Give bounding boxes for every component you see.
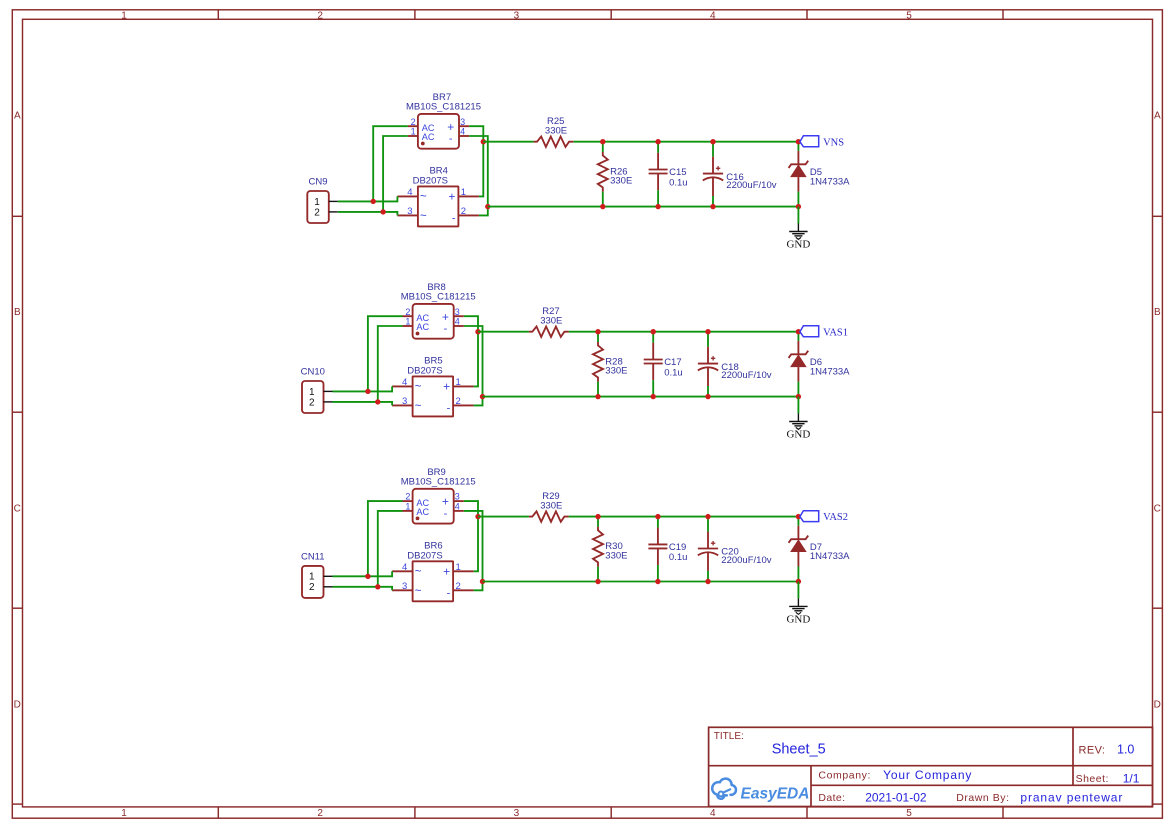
junction C16 bottom (710, 204, 715, 209)
resistor R30 330E (593, 517, 627, 582)
junction CN11.1 (365, 574, 370, 579)
CN10 pin 2 (324, 401, 333, 403)
svg-text:1: 1 (456, 377, 461, 388)
wire C16 bottom (712, 196, 714, 207)
capacitor C17 0.1u (644, 332, 683, 397)
svg-text:4: 4 (455, 317, 460, 327)
row tick right 1 (1153, 215, 1163, 217)
svg-text:3: 3 (514, 11, 520, 22)
wire C15 bottom (657, 190, 659, 206)
column tick bottom 1 (217, 807, 219, 818)
svg-text:2: 2 (405, 492, 410, 502)
wire BR4.2 to - rail (479, 207, 488, 216)
svg-text:5: 5 (906, 808, 912, 819)
BR8 pin 4 (454, 325, 464, 327)
BR8 pin 2 (403, 315, 413, 317)
C15 plates (649, 169, 668, 171)
column tick top 2 (414, 10, 416, 19)
CN9 pin 2 (329, 211, 338, 213)
C16 plus sign (716, 167, 720, 169)
wire CN11.1 to BR6.4 (333, 571, 393, 576)
svg-text:1N4733A: 1N4733A (810, 551, 850, 562)
wire R28 top (597, 332, 599, 342)
bridge rectifier BR8 MB10S_C181215 (401, 282, 476, 339)
svg-text:+: + (442, 310, 449, 324)
svg-text:2200uF/10v: 2200uF/10v (726, 180, 776, 191)
ground symbol GND (786, 598, 810, 625)
wire - rail (488, 206, 799, 208)
BR7 pin 4 (459, 135, 469, 137)
wire C19 top (657, 517, 659, 528)
svg-text:1: 1 (309, 572, 315, 583)
svg-text:DB207S: DB207S (413, 175, 448, 186)
C18 plus sign (711, 357, 715, 359)
title block vertical logo divider (810, 766, 812, 807)
BR7 pin 2 (408, 125, 418, 127)
svg-text:5: 5 (906, 11, 912, 22)
junction D6 bottom (796, 394, 801, 399)
svg-text:1: 1 (405, 317, 410, 327)
wire CN9.2 to BR4.3 (338, 212, 398, 216)
wire D5 top (797, 142, 799, 151)
svg-text:4: 4 (402, 377, 407, 388)
svg-text:1: 1 (405, 502, 410, 512)
wire BR7.4 to - rail (469, 136, 488, 207)
svg-text:1.0: 1.0 (1117, 743, 1134, 757)
svg-text:1: 1 (121, 11, 127, 22)
resistor R26 330E (598, 142, 632, 207)
svg-text:CN11: CN11 (301, 551, 325, 562)
svg-text:1: 1 (309, 387, 315, 398)
wire junction to BR9.2 (368, 501, 403, 576)
bridge rectifier BR7 MB10S_C181215 (406, 92, 481, 149)
wire junction to BR9.1 (378, 511, 403, 587)
BR7 pin-1 marker dot (421, 142, 425, 146)
svg-text:GND: GND (786, 429, 810, 441)
svg-text:C17: C17 (664, 357, 681, 368)
wire CN10.2 to BR5.3 (333, 402, 393, 406)
junction C15 bottom (655, 204, 660, 209)
svg-text:CN10: CN10 (301, 366, 325, 377)
wire R30 bottom (597, 567, 599, 582)
svg-text:-: - (452, 213, 456, 225)
svg-text:+: + (442, 495, 449, 509)
CN9 pin 1 (329, 200, 338, 202)
wire BR5.1 to + rail (474, 332, 478, 387)
BR9 pin 4 (454, 510, 464, 512)
svg-text:GND: GND (786, 239, 810, 251)
wire R26 top (602, 142, 604, 152)
net label VAS2 (800, 511, 848, 524)
row tick left 4 (12, 803, 22, 805)
wire C15 top (657, 142, 659, 153)
resistor R28 330E (593, 332, 627, 397)
svg-text:A: A (14, 111, 21, 122)
capacitor C15 0.1u (649, 142, 688, 207)
svg-text:4: 4 (407, 187, 412, 198)
svg-text:CN9: CN9 (309, 176, 328, 187)
column tick top 3 (610, 10, 612, 19)
svg-text:D: D (1154, 700, 1161, 711)
BR4 pin 1 (458, 195, 479, 197)
wire D7 to ground (797, 582, 799, 599)
junction + rail left (481, 139, 486, 144)
column tick top 5 (1002, 10, 1004, 19)
resistor R27 330E (529, 306, 569, 337)
svg-text:Sheet_5: Sheet_5 (772, 742, 826, 758)
wire + rail segment left of R29 (478, 516, 529, 518)
junction C15 top (655, 139, 660, 144)
svg-text:330E: 330E (605, 551, 627, 562)
junction C18 bottom (705, 394, 710, 399)
BR9 pin 1 (403, 510, 413, 512)
row tick right 4 (1153, 803, 1163, 805)
junction D7 bottom (796, 579, 801, 584)
column tick top 1 (217, 10, 219, 19)
svg-text:~: ~ (420, 191, 427, 203)
ground symbol GND (786, 224, 810, 251)
wire junction to BR7.1 (383, 136, 408, 212)
svg-text:2021-01-02: 2021-01-02 (865, 791, 927, 805)
svg-text:VAS1: VAS1 (823, 327, 848, 338)
svg-text:3: 3 (455, 492, 460, 502)
wire D5 to ground (797, 207, 799, 224)
wire BR6.2 to - rail (474, 582, 483, 591)
column tick bottom 3 (610, 807, 612, 818)
svg-text:2: 2 (456, 581, 461, 592)
svg-text:-: - (447, 403, 451, 415)
svg-text:1: 1 (456, 562, 461, 573)
svg-text:-: - (444, 323, 448, 335)
bridge rectifier BR5 DB207S (392, 356, 474, 417)
wire junction to BR8.2 (368, 316, 403, 391)
svg-text:B: B (1154, 307, 1161, 318)
svg-text:D: D (14, 700, 21, 711)
wire junction to BR7.2 (373, 126, 408, 201)
zener diode D6 1N4733A (789, 332, 851, 397)
wire BR5.2 to - rail (474, 397, 483, 406)
svg-text:Your Company: Your Company (883, 768, 972, 782)
wire D6 top (797, 332, 799, 341)
svg-text:Company:: Company: (818, 770, 871, 782)
wire D6 to ground (797, 397, 799, 414)
BR7 pin 3 (459, 125, 469, 127)
column tick bottom 4 (806, 807, 808, 818)
svg-text:-: - (447, 588, 451, 600)
BR8 pin-1 marker dot (416, 332, 420, 336)
svg-text:C: C (14, 503, 21, 514)
zener diode D5 1N4733A (789, 142, 851, 207)
ground symbol GND (786, 414, 810, 441)
junction R26 bottom (600, 204, 605, 209)
BR7 pin 1 (408, 135, 418, 137)
BR9 pin 2 (403, 500, 413, 502)
BR5 pin 4 (392, 385, 413, 387)
connector CN10 (301, 366, 333, 413)
svg-text:~: ~ (415, 566, 422, 578)
connector CN9 (307, 176, 338, 223)
CN11 pin 2 (324, 586, 333, 588)
capacitor C20 2200uF/10v polarized (698, 517, 772, 582)
C20 plates (698, 548, 718, 550)
column tick top 4 (806, 10, 808, 19)
svg-text:4: 4 (460, 127, 465, 137)
resistor R25 330E (534, 116, 574, 147)
wire CN11.2 to BR6.3 (333, 587, 393, 591)
C20 plus sign (711, 542, 715, 544)
svg-text:4: 4 (710, 808, 716, 819)
junction CN9.1 (371, 199, 376, 204)
BR9 pin 3 (454, 500, 464, 502)
wire CN9.1 to BR4.4 (338, 196, 398, 201)
D6 anode triangle (790, 354, 807, 367)
svg-text:B: B (14, 307, 21, 318)
svg-text:2: 2 (456, 396, 461, 407)
row tick right 2 (1153, 411, 1163, 413)
svg-text:AC: AC (416, 507, 429, 517)
row tick left 2 (12, 411, 22, 413)
svg-text:1: 1 (411, 127, 416, 137)
svg-text:~: ~ (420, 211, 427, 223)
wire R28 bottom (597, 382, 599, 397)
title block divider company/date (811, 784, 1153, 786)
wire BR9.4 to - rail (464, 511, 483, 582)
capacitor C19 0.1u (648, 517, 687, 582)
svg-text:Sheet:: Sheet: (1076, 773, 1109, 785)
BR5 pin 3 (392, 404, 413, 406)
svg-text:330E: 330E (610, 176, 632, 187)
svg-text:1/1: 1/1 (1123, 771, 1140, 785)
BR8 pin 3 (454, 315, 464, 317)
wire C18 top (707, 332, 709, 347)
wire - rail (483, 581, 799, 583)
net label VNS (800, 136, 844, 149)
C19 plates (648, 543, 667, 545)
row tick left 3 (12, 607, 22, 609)
svg-text:C: C (1154, 503, 1161, 514)
svg-text:~: ~ (415, 586, 422, 598)
svg-text:AC: AC (422, 132, 435, 142)
svg-text:Drawn By:: Drawn By: (956, 792, 1009, 804)
D7 cathode bar (789, 536, 809, 543)
svg-text:4: 4 (455, 502, 460, 512)
junction R30 top (595, 514, 600, 519)
D5 cathode bar (789, 161, 809, 168)
svg-text:330E: 330E (605, 366, 627, 377)
svg-text:2: 2 (405, 307, 410, 317)
wire + rail segment right of R29 (569, 516, 799, 518)
BR6 pin 3 (392, 589, 413, 591)
svg-text:3: 3 (407, 206, 412, 217)
svg-text:1N4733A: 1N4733A (810, 176, 850, 187)
junction - rail left (485, 204, 490, 209)
svg-text:REV:: REV: (1079, 744, 1106, 756)
wire R30 top (597, 517, 599, 527)
D6 cathode bar (789, 351, 809, 358)
svg-text:VAS2: VAS2 (823, 512, 848, 523)
CN10 pin 1 (324, 390, 333, 392)
row tick right 3 (1153, 607, 1163, 609)
CN11 pin 1 (324, 575, 333, 577)
junction C19 bottom (655, 579, 660, 584)
svg-text:2: 2 (317, 11, 323, 22)
bridge rectifier BR6 DB207S (392, 541, 474, 602)
wire + rail segment left of R27 (478, 331, 529, 333)
svg-text:1: 1 (121, 808, 127, 819)
junction C18 top (705, 329, 710, 334)
wire BR7.3 to + rail (469, 126, 483, 142)
svg-text:4: 4 (402, 562, 407, 573)
junction CN10.2 (375, 399, 380, 404)
EasyEDA logo cloud icon (712, 779, 736, 799)
BR6 pin 4 (392, 570, 413, 572)
svg-text:2200uF/10v: 2200uF/10v (721, 370, 771, 381)
svg-text:GND: GND (786, 614, 810, 626)
wire C16 top (712, 142, 714, 157)
junction C17 top (651, 329, 656, 334)
svg-text:3: 3 (460, 117, 465, 127)
junction C16 top (710, 139, 715, 144)
BR5 pin 2 (453, 404, 474, 406)
title block vertical rev divider (1072, 727, 1074, 785)
C16 plates (703, 173, 723, 175)
svg-text:0.1u: 0.1u (669, 177, 688, 188)
wire BR6.1 to + rail (474, 517, 478, 572)
svg-text:330E: 330E (545, 126, 567, 137)
junction CN11.2 (375, 584, 380, 589)
BR9 pin-1 marker dot (416, 517, 420, 521)
svg-text:MB10S_C181215: MB10S_C181215 (401, 477, 476, 488)
column tick bottom 5 (1002, 807, 1004, 818)
svg-text:+: + (447, 120, 454, 134)
junction - rail left (480, 579, 485, 584)
resistor R29 330E (529, 491, 569, 522)
svg-text:2: 2 (317, 808, 323, 819)
svg-text:DB207S: DB207S (407, 550, 442, 561)
BR8 pin 1 (403, 325, 413, 327)
svg-text:3: 3 (402, 581, 407, 592)
connector CN11 (301, 551, 333, 598)
wire D6 bottom (797, 382, 799, 397)
svg-text:~: ~ (415, 381, 422, 393)
junction C20 top (705, 514, 710, 519)
svg-text:1N4733A: 1N4733A (810, 366, 850, 377)
wire BR4.1 to + rail (479, 142, 483, 197)
svg-text:C19: C19 (669, 542, 686, 553)
svg-text:0.1u: 0.1u (664, 367, 683, 378)
junction - rail left (480, 394, 485, 399)
wire C20 bottom (707, 571, 709, 582)
junction C17 bottom (651, 394, 656, 399)
svg-text:2200uF/10v: 2200uF/10v (721, 555, 771, 566)
BR4 pin 4 (397, 195, 418, 197)
BR5 pin 1 (453, 385, 474, 387)
wire BR8.4 to - rail (464, 326, 483, 397)
svg-text:330E: 330E (540, 500, 562, 511)
junction R30 bottom (595, 579, 600, 584)
wire junction to BR8.1 (378, 326, 403, 402)
bridge rectifier BR4 DB207S (397, 166, 479, 227)
wire - rail (483, 396, 799, 398)
wire D7 bottom (797, 567, 799, 582)
svg-text:AC: AC (416, 322, 429, 332)
svg-text:-: - (444, 508, 448, 520)
svg-text:2: 2 (309, 397, 315, 408)
wire + rail segment left of R25 (483, 141, 533, 143)
wire + rail segment right of R27 (569, 331, 799, 333)
junction CN10.1 (365, 389, 370, 394)
svg-text:C15: C15 (669, 167, 686, 178)
junction R26 top (600, 139, 605, 144)
svg-text:MB10S_C181215: MB10S_C181215 (406, 102, 481, 113)
wire D5 bottom (797, 192, 799, 207)
svg-text:A: A (1154, 111, 1161, 122)
D5 anode triangle (790, 164, 807, 177)
wire BR8.3 to + rail (464, 316, 478, 332)
junction C20 bottom (705, 579, 710, 584)
wire CN10.1 to BR5.4 (333, 386, 393, 391)
BR4 pin 3 (397, 214, 418, 216)
svg-text:1: 1 (314, 197, 320, 208)
svg-text:2: 2 (411, 117, 416, 127)
bridge rectifier BR9 MB10S_C181215 (401, 467, 476, 524)
svg-text:~: ~ (415, 401, 422, 413)
svg-text:-: - (449, 133, 453, 145)
svg-text:MB10S_C181215: MB10S_C181215 (401, 292, 476, 303)
svg-text:+: + (448, 190, 455, 204)
junction CN9.2 (380, 209, 385, 214)
junction R28 bottom (595, 394, 600, 399)
svg-text:2: 2 (309, 582, 315, 593)
BR6 pin 2 (453, 589, 474, 591)
wire BR9.3 to + rail (464, 501, 478, 516)
capacitor C16 2200uF/10v polarized (703, 142, 777, 207)
svg-text:Date:: Date: (818, 792, 845, 804)
BR6 pin 1 (453, 570, 474, 572)
svg-text:+: + (443, 380, 450, 394)
svg-text:2: 2 (461, 206, 466, 217)
net label VAS1 (800, 326, 848, 339)
svg-text:VNS: VNS (823, 137, 844, 148)
BR4 pin 2 (458, 214, 479, 216)
svg-text:3: 3 (455, 307, 460, 317)
C18 plates (698, 363, 718, 365)
wire C17 top (652, 332, 654, 343)
wire C18 bottom (707, 386, 709, 397)
zener diode D7 1N4733A (789, 517, 851, 582)
svg-text:3: 3 (514, 808, 520, 819)
junction R28 top (595, 329, 600, 334)
wire + rail segment right of R25 (573, 141, 798, 143)
svg-text:1: 1 (461, 187, 466, 198)
D7 anode triangle (790, 539, 807, 552)
junction net flag VAS1 (796, 329, 801, 334)
svg-text:TITLE:: TITLE: (714, 731, 744, 742)
junction net flag VNS (796, 139, 801, 144)
wire R26 bottom (602, 192, 604, 207)
svg-text:pranav pentewar: pranav pentewar (1020, 791, 1123, 805)
wire D7 top (797, 517, 799, 526)
svg-text:0.1u: 0.1u (669, 552, 688, 563)
title block frame (709, 727, 1153, 806)
svg-text:3: 3 (402, 396, 407, 407)
junction + rail left (475, 329, 480, 334)
svg-text:4: 4 (710, 11, 716, 22)
C17 plates (644, 359, 663, 361)
row tick left 1 (12, 215, 22, 217)
wire C20 top (707, 517, 709, 532)
svg-text:EasyEDA: EasyEDA (741, 785, 810, 802)
